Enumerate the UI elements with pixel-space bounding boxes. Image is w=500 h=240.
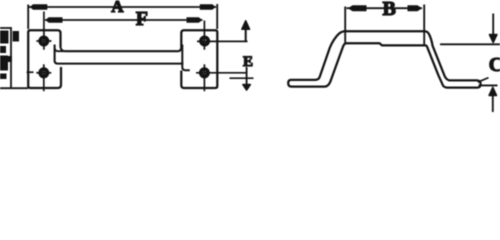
- hole top-right centerline vertical (F extension): [203, 21, 205, 50]
- foot end riser mark: [478, 78, 489, 83]
- hole bottom-left centerline vertical: [43, 64, 45, 91]
- dimension C top arrowhead (pointing down): [490, 35, 497, 43]
- plate strip left end upper corner: [55, 48, 64, 51]
- dimension B dim line: [347, 7, 423, 9]
- dimension F dim line: [45, 19, 203, 21]
- dimension A right arrowhead: [200, 4, 216, 9]
- hole top-left centerline vertical (F extension): [43, 12, 45, 50]
- hole bottom-right centerline vertical: [203, 64, 205, 91]
- dimension F right arrowhead: [187, 17, 203, 22]
- cropped left dimension mark 3: [0, 46, 6, 53]
- dimension B right arrowhead: [408, 5, 423, 11]
- left end view top edge: [0, 27, 12, 29]
- dimension C top stem: [492, 14, 494, 37]
- dimension E bottom arrow stem: [246, 67, 248, 88]
- cropped left dimension mark 5: [0, 74, 7, 80]
- cropped left dimension mark 4 crossing tick: [8, 56, 13, 62]
- hole bottom-right centerline horizontal (E mid extension): [196, 72, 248, 74]
- hole top-right centerline horizontal (E top extension): [197, 40, 248, 42]
- left end view / pad shared bottom edge: [0, 87, 28, 89]
- plate left pad outline: [28, 30, 61, 88]
- plate strip right end line: [182, 45, 190, 71]
- dimension B left extension line: [344, 7, 346, 44]
- dimension E bottom arrowhead (pointing down): [243, 85, 250, 90]
- dimension E top arrow stem: [245, 27, 247, 42]
- plate strip bottom edge: [57, 63, 183, 65]
- dimension E bottom extension line: [230, 77, 254, 79]
- svg-text:C: C: [489, 54, 500, 76]
- hole bottom-left centerline horizontal: [36, 72, 51, 74]
- dimension A right extension line: [216, 4, 218, 29]
- dimension F left arrowhead: [45, 17, 62, 22]
- dimension B left arrowhead: [348, 5, 367, 11]
- svg-text:F: F: [136, 8, 148, 30]
- strap outer/inner contour (right view): [288, 31, 480, 87]
- plate strip top edge: [61, 48, 181, 52]
- dimension C bottom arrowhead (pointing up): [489, 87, 496, 95]
- dimension A left extension line: [27, 5, 29, 30]
- cropped left dimension mark 4: [0, 56, 8, 71]
- plate right pad outline: [181, 30, 217, 88]
- cropped left dimension mark 2: [13, 31, 19, 42]
- dimension A dim line: [29, 6, 216, 8]
- plate strip left end line: [55, 45, 58, 64]
- hole top-right ring: [201, 37, 208, 44]
- hole top-left ring: [40, 37, 47, 44]
- hole top-left centerline horizontal: [36, 40, 51, 42]
- hole bottom-left centerline left tick: [27, 71, 34, 73]
- svg-text:A: A: [111, 0, 124, 16]
- dimension C bottom stem: [492, 95, 494, 112]
- dimension E top arrowhead (pointing up): [242, 21, 250, 29]
- svg-text:E: E: [243, 54, 253, 70]
- hole bottom-right ring: [201, 69, 208, 76]
- dimension A left arrowhead: [30, 4, 48, 9]
- dimension B right extension line: [423, 5, 425, 45]
- dimension C top extension line: [440, 43, 500, 45]
- hole bottom-left ring: [40, 69, 47, 76]
- dimension C bottom extension line: [479, 84, 498, 86]
- svg-text:B: B: [383, 0, 396, 20]
- cropped left dimension mark 1: [0, 31, 9, 44]
- left end view right edge: [10, 27, 12, 88]
